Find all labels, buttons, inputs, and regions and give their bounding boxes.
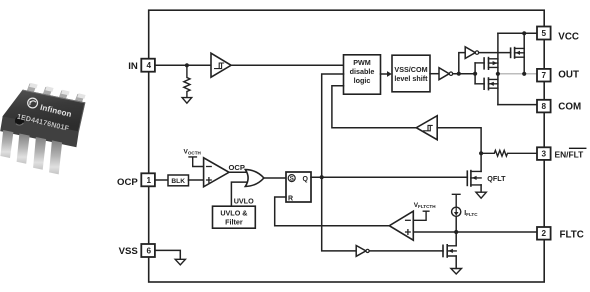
wire: BLK to comparator A1 plus input <box>189 179 204 181</box>
node: IN-R1 junction <box>185 63 189 67</box>
wire: pin1 OCP to BLK <box>156 179 169 181</box>
wire: schmitt U1 output to PWM disable logic <box>231 64 343 66</box>
transistor M1 (VCC-OUT clamp FET) <box>510 48 512 57</box>
current source I_FLTC <box>452 194 460 207</box>
VSS/COM level shift block <box>392 55 430 92</box>
pin 4 box <box>141 59 155 72</box>
wire: branch up to inverter U4 input <box>459 53 465 74</box>
wire: UVLO to OR gate U5 <box>231 182 248 206</box>
wire: A1 output to OR gate U5 <box>229 171 247 173</box>
pin 7 box <box>537 69 551 82</box>
node: EN/FLT junction <box>479 151 483 155</box>
wire: latch Q to QFLT gate <box>311 176 467 178</box>
pin 1 box <box>141 173 155 186</box>
body top bevel <box>23 90 85 103</box>
pin 2 box <box>537 227 551 240</box>
comparator A1 (OCP) <box>204 158 229 187</box>
wire: Q up to PWM disable logic <box>322 74 344 177</box>
pin 6 box <box>141 244 155 257</box>
ground under R1 <box>182 98 192 104</box>
svg-text:COM: COM <box>558 101 581 112</box>
svg-text:VFLTCTH: VFLTCTH <box>414 202 437 209</box>
svg-text:1: 1 <box>147 176 152 185</box>
wire: latch R input from comparator A2 <box>275 197 390 226</box>
svg-text:Q: Q <box>302 176 308 183</box>
top lead pin7a <box>42 87 53 98</box>
supply V_FLTCTH symbol <box>413 211 429 220</box>
resistor R1 pull-down on IN <box>184 65 190 97</box>
latch U6 (SR) <box>286 172 311 202</box>
svg-text:UVLO: UVLO <box>234 197 254 206</box>
comparator A2 (FLTC, points left) <box>389 211 413 240</box>
svg-text:Filter: Filter <box>225 217 243 226</box>
wire: Q down to inverter U7 input <box>322 177 357 251</box>
node: OUT left junction <box>496 72 500 76</box>
wire: COM net to pin8 <box>498 104 537 106</box>
node: OUT right junction <box>522 72 526 76</box>
schmitt trigger buffer U1 on IN <box>211 53 231 77</box>
pin 8 box <box>537 100 551 113</box>
ground under QFLT <box>476 192 486 198</box>
svg-text:8: 8 <box>542 102 547 111</box>
wire: PWM disable logic to EN schmitt U8 output <box>332 86 416 128</box>
svg-text:OUT: OUT <box>558 70 579 81</box>
package side face <box>0 116 79 147</box>
BLK block <box>168 175 189 186</box>
top lead pin5a <box>74 94 85 105</box>
svg-text:VCC: VCC <box>558 31 579 42</box>
wire: OUT net (grey) to pin7 <box>498 73 537 75</box>
wire: level shift to inverter U3 <box>430 73 439 75</box>
schmitt buffer U8 (EN, points left) <box>416 116 437 140</box>
bottom lead 1 <box>0 130 13 158</box>
Infineon logo circle <box>28 98 38 108</box>
svg-text:IN: IN <box>128 61 138 72</box>
pin 3 box <box>537 147 551 160</box>
inverter U7 (drives M4) <box>356 246 366 257</box>
svg-text:PWM: PWM <box>353 58 371 67</box>
svg-text:logic: logic <box>354 76 371 85</box>
transistor QFLT <box>466 171 468 185</box>
inverter U3 (output driver stage) <box>439 68 449 80</box>
pin1 dimple <box>15 116 24 125</box>
node: FLTC junction <box>454 230 458 234</box>
wire: EN/FLT node to U8 input <box>437 128 481 154</box>
svg-text:VSS/COM: VSS/COM <box>394 65 427 74</box>
top lead pin8a <box>26 84 37 95</box>
wire: M1 drain/source vertical VCC rail to OUT <box>523 33 525 74</box>
transistor M3 (pull-down FET) <box>475 83 484 85</box>
svg-text:5: 5 <box>542 29 547 38</box>
wire: output-stage vertical VCC to COM <box>497 33 499 104</box>
wire: U3 output to push-pull gates <box>453 73 475 75</box>
svg-text:QFLT: QFLT <box>487 174 506 183</box>
wire: PWM disable logic to VSS/COM level shift (with arrowhead) <box>381 73 388 75</box>
svg-text:R: R <box>288 195 293 202</box>
svg-text:level shift: level shift <box>394 74 428 83</box>
svg-text:BLK: BLK <box>171 178 185 185</box>
wire: push-pull gate vertical <box>474 63 476 84</box>
ground under M4 <box>451 269 462 275</box>
supply V_OCTH symbol <box>189 157 204 167</box>
transistor M4 (FLTC discharge) <box>442 245 444 256</box>
svg-text:VSS: VSS <box>119 246 139 257</box>
wire: U4 output to transistor M1 gate <box>479 52 511 54</box>
node: M1 top on VCC rail <box>522 31 526 35</box>
svg-text:4: 4 <box>147 61 152 70</box>
inverter U4 (drives M1) <box>465 47 475 59</box>
UVLO & Filter block <box>213 206 256 228</box>
svg-text:3: 3 <box>542 149 547 158</box>
node: Q fanout junction <box>320 175 324 179</box>
wire: U7 output to M4 gate <box>369 250 443 252</box>
wire: VCC rail from pin5 <box>498 32 537 34</box>
svg-text:VOCTH: VOCTH <box>184 149 202 156</box>
svg-text:6: 6 <box>147 247 152 256</box>
svg-text:7: 7 <box>542 71 547 80</box>
wire: FLTC net from A2 plus input to pin2 <box>413 231 537 233</box>
PWM disable logic block <box>344 55 381 94</box>
svg-text:FLTC: FLTC <box>560 230 584 241</box>
svg-text:OCP: OCP <box>117 177 138 188</box>
pin 5 box <box>537 27 551 40</box>
bottom lead 3 <box>33 137 46 170</box>
svg-text:S: S <box>290 176 295 183</box>
bottom lead 4 <box>49 140 62 174</box>
svg-text:EN/FLT: EN/FLT <box>555 149 585 159</box>
package body top face <box>3 90 86 132</box>
OR gate U5 <box>245 170 264 187</box>
svg-text:OCP: OCP <box>229 163 245 172</box>
svg-text:UVLO &: UVLO & <box>220 208 247 217</box>
wire: pin6 VSS to ground <box>156 250 181 259</box>
node: gate tee <box>473 72 477 76</box>
svg-text:2: 2 <box>542 229 547 238</box>
svg-text:disable: disable <box>350 67 375 76</box>
bottom lead 2 <box>17 134 30 164</box>
node: U3 output junction <box>457 72 461 76</box>
resistor R2 on EN/FLT <box>481 150 537 156</box>
svg-text:IFLTC: IFLTC <box>464 210 478 217</box>
ground at VSS <box>175 259 185 265</box>
top lead pin6a <box>58 90 69 101</box>
wire: OR U5 output to latch S input <box>264 177 286 179</box>
wire: pin4 IN to schmitt input <box>156 64 212 66</box>
transistor M2 (pull-up FET) <box>475 62 484 64</box>
IC boundary rectangle <box>149 10 545 282</box>
